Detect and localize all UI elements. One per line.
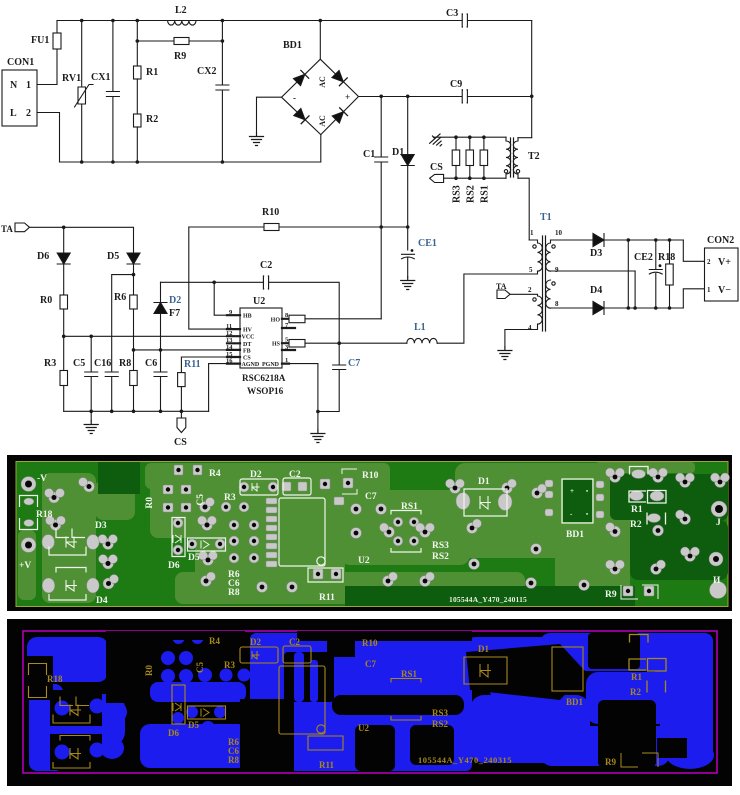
wire V- to CON2 <box>683 289 704 308</box>
svg-text:CS: CS <box>430 162 443 173</box>
svg-text:D1: D1 <box>478 477 490 487</box>
svg-text:L2: L2 <box>175 5 187 16</box>
svg-text:CS: CS <box>174 437 187 448</box>
svg-text:R18: R18 <box>47 674 63 684</box>
svg-text:И: И <box>713 576 721 586</box>
svg-text:WSOP16: WSOP16 <box>247 386 284 396</box>
svg-text:R9: R9 <box>605 590 617 600</box>
svg-text:R18: R18 <box>658 252 675 263</box>
svg-text:V+: V+ <box>718 257 731 268</box>
svg-text:C5: C5 <box>196 494 206 506</box>
svg-text:U2: U2 <box>358 723 369 733</box>
svg-text:D3: D3 <box>95 521 107 531</box>
svg-text:R11: R11 <box>319 760 335 770</box>
svg-text:RV1: RV1 <box>62 73 81 84</box>
svg-text:C2: C2 <box>260 260 272 271</box>
inductor L2 <box>168 21 196 26</box>
svg-text:-: - <box>293 93 296 103</box>
svg-text:C2: C2 <box>289 637 300 647</box>
capacitor C2 <box>264 276 269 289</box>
svg-text:D5: D5 <box>188 553 200 563</box>
svg-text:FB: FB <box>243 348 251 354</box>
capacitor C1 <box>375 96 388 318</box>
resistor on HO pin <box>289 315 305 323</box>
svg-text:HB: HB <box>243 314 252 320</box>
svg-text:+: + <box>345 92 350 102</box>
svg-text:R3: R3 <box>44 358 56 369</box>
svg-text:•: • <box>586 512 588 518</box>
svg-text:RSC6218A: RSC6218A <box>242 373 286 383</box>
svg-text:RS1: RS1 <box>401 669 418 679</box>
svg-text:C9: C9 <box>450 79 462 90</box>
svg-text:TA: TA <box>496 282 507 291</box>
svg-text:BD1: BD1 <box>283 40 302 51</box>
svg-text:R8: R8 <box>228 588 240 598</box>
connector CON1 <box>2 70 37 126</box>
wire center tap drop <box>634 271 636 308</box>
svg-text:D5: D5 <box>107 251 119 262</box>
svg-text:RS2: RS2 <box>432 552 449 562</box>
svg-text:9: 9 <box>555 266 559 274</box>
svg-text:RS1: RS1 <box>480 185 491 203</box>
wire AGND line <box>209 364 240 412</box>
svg-text:D2: D2 <box>250 470 262 480</box>
svg-text:AC: AC <box>318 76 327 88</box>
diode D4 <box>593 302 604 315</box>
inductor L1 <box>407 338 437 343</box>
svg-text:R6: R6 <box>114 292 126 303</box>
svg-text:R2: R2 <box>630 520 642 530</box>
ground tilted at RS <box>427 131 446 150</box>
svg-text:D1: D1 <box>392 147 404 158</box>
diode D2 <box>154 282 167 302</box>
svg-text:J: J <box>716 518 721 528</box>
svg-text:R1: R1 <box>631 672 642 682</box>
svg-text:C2: C2 <box>289 470 301 480</box>
capacitor C5 <box>85 336 98 411</box>
svg-text:T1: T1 <box>540 212 552 223</box>
svg-text:HV: HV <box>243 328 253 334</box>
port TA <box>15 223 30 232</box>
capacitor CX1 <box>106 21 119 163</box>
svg-text:FU1: FU1 <box>31 35 49 46</box>
resistor R10 <box>264 224 279 231</box>
wire CS/RS bottom line <box>444 177 506 179</box>
port CS bottom <box>177 418 186 433</box>
svg-text:R3: R3 <box>224 660 235 670</box>
wire V+ to CON2 <box>683 240 704 261</box>
ground at BD1 <box>250 133 264 146</box>
svg-text:CON2: CON2 <box>707 235 734 246</box>
port TA at T1 <box>497 290 510 299</box>
svg-text:RS3: RS3 <box>452 185 463 203</box>
svg-text:2: 2 <box>528 286 532 294</box>
svg-text:N: N <box>10 80 18 91</box>
svg-text:RS1: RS1 <box>401 502 418 512</box>
svg-text:R9: R9 <box>605 757 616 767</box>
svg-text:D2: D2 <box>250 637 261 647</box>
wire D3 line <box>551 239 595 241</box>
pad holes <box>25 468 723 593</box>
capacitor C7 <box>318 343 346 411</box>
varistor RV1 <box>81 21 83 163</box>
svg-text:T2: T2 <box>528 151 540 162</box>
capacitor C3 <box>462 14 467 27</box>
resistor RS2 <box>469 137 471 150</box>
svg-text:R8: R8 <box>119 358 131 369</box>
svg-text:R10: R10 <box>362 638 378 648</box>
resistor R6 <box>133 275 135 295</box>
transformer T1 <box>543 236 546 331</box>
svg-text:R4: R4 <box>209 469 221 479</box>
U2 pin numbers <box>226 309 289 365</box>
svg-text:10: 10 <box>555 229 563 237</box>
fuse FU1 <box>56 21 58 85</box>
svg-text:AGND: AGND <box>242 362 260 368</box>
svg-text:11: 11 <box>226 323 232 330</box>
connector CON2 <box>705 248 739 301</box>
resistor RS1 <box>483 137 485 150</box>
resistor R9 <box>137 40 222 42</box>
resistor R3 <box>63 336 65 370</box>
svg-text:-V: -V <box>37 474 47 484</box>
svg-text:CE1: CE1 <box>418 238 437 249</box>
IC U2 <box>240 308 282 368</box>
svg-text:D6: D6 <box>168 728 179 738</box>
svg-text:14: 14 <box>226 344 233 351</box>
svg-text:D1: D1 <box>478 644 489 654</box>
svg-text:R2: R2 <box>146 114 158 125</box>
svg-text:U2: U2 <box>358 556 370 566</box>
capacitor CE1 <box>402 254 415 277</box>
svg-text:D2: D2 <box>169 295 181 306</box>
svg-text:DT: DT <box>243 342 251 348</box>
svg-text:R0: R0 <box>40 295 52 306</box>
wire bottom AC rail <box>60 161 321 163</box>
wire HB drop to pin9 <box>214 282 240 315</box>
wire FB line <box>134 349 241 351</box>
svg-text:R10: R10 <box>362 471 379 481</box>
svg-text:+V: +V <box>19 561 31 571</box>
svg-text:BD1: BD1 <box>566 530 584 540</box>
svg-text:C16: C16 <box>94 358 111 369</box>
svg-text:HO: HO <box>271 317 281 323</box>
svg-text:RS3: RS3 <box>432 541 449 551</box>
svg-text:5: 5 <box>529 266 533 274</box>
pads <box>21 465 730 599</box>
svg-text:HS: HS <box>272 342 281 348</box>
ground at CE1 <box>401 277 415 290</box>
capacitor C16 <box>105 372 118 411</box>
svg-text:BD1: BD1 <box>566 697 584 707</box>
svg-text:R11: R11 <box>319 593 335 603</box>
svg-text:1: 1 <box>530 229 534 237</box>
pcb bottom view background <box>7 619 732 786</box>
svg-text:D3: D3 <box>590 248 602 259</box>
wire switch-node rail with R10 <box>189 226 408 228</box>
copper pours <box>42 473 96 603</box>
transformer T2 <box>511 138 514 177</box>
svg-text:•: • <box>586 489 588 495</box>
svg-text:R8: R8 <box>228 755 239 765</box>
svg-text:RS3: RS3 <box>432 708 449 718</box>
svg-text:2: 2 <box>707 258 711 266</box>
U2 pin names <box>242 314 281 368</box>
wire RS top line <box>434 136 507 138</box>
resistor R18 <box>669 240 671 264</box>
diode D5 <box>127 253 140 264</box>
diode D1 <box>407 96 409 154</box>
svg-text:PGND: PGND <box>262 362 280 368</box>
board <box>16 462 728 607</box>
wire top rail <box>57 20 532 22</box>
svg-text:13: 13 <box>226 337 233 344</box>
svg-text:R10: R10 <box>262 207 279 218</box>
diode D6 <box>57 227 70 264</box>
resistor R8 <box>130 371 138 386</box>
resistor R1 <box>136 21 138 67</box>
svg-text:1: 1 <box>285 357 288 364</box>
svg-text:4: 4 <box>528 324 532 332</box>
svg-text:8: 8 <box>555 300 559 308</box>
svg-text:R1: R1 <box>631 505 643 515</box>
svg-text:AC: AC <box>318 115 327 127</box>
diode D3 <box>593 234 604 247</box>
svg-text:D5: D5 <box>188 720 199 730</box>
svg-text:TA: TA <box>1 224 13 234</box>
wire ground rail <box>64 410 209 412</box>
ground PGND <box>311 430 325 443</box>
wire HV drop <box>189 227 240 329</box>
svg-text:12: 12 <box>226 330 233 337</box>
svg-text:CX1: CX1 <box>91 72 110 83</box>
copper <box>27 632 714 771</box>
svg-text:C7: C7 <box>365 659 376 669</box>
etched channels <box>25 631 687 771</box>
svg-text:C3: C3 <box>446 8 458 19</box>
svg-text:VCC: VCC <box>242 335 255 341</box>
svg-text:C5: C5 <box>195 662 205 673</box>
svg-text:1: 1 <box>26 80 31 91</box>
resistor RS3 <box>455 137 457 150</box>
svg-text:R18: R18 <box>36 510 53 520</box>
silkscreen (khaki) <box>29 635 667 769</box>
svg-text:+: + <box>570 487 574 495</box>
svg-text:CON1: CON1 <box>7 57 34 68</box>
wire VCC line <box>64 335 240 337</box>
svg-text:CE2: CE2 <box>634 252 653 263</box>
wire CS pin line <box>181 357 240 373</box>
svg-text:D6: D6 <box>168 561 180 571</box>
svg-text:R11: R11 <box>184 359 201 370</box>
wire TA line <box>30 227 134 253</box>
resistor R0 <box>60 295 68 309</box>
svg-text:C6: C6 <box>145 358 157 369</box>
ground T1 pin4 <box>498 347 512 360</box>
svg-text:R4: R4 <box>209 636 220 646</box>
resistor R2 <box>136 79 138 114</box>
svg-text:C7: C7 <box>348 358 360 369</box>
svg-text:U2: U2 <box>253 296 265 307</box>
svg-text:V−: V− <box>718 285 731 296</box>
svg-text:CS: CS <box>243 356 251 362</box>
ground main <box>90 411 92 421</box>
copper islands over channels <box>55 652 319 760</box>
pcb top view background <box>7 455 732 611</box>
svg-text:D6: D6 <box>37 251 49 262</box>
capacitor CX2 <box>216 21 229 163</box>
svg-text:1: 1 <box>707 286 711 294</box>
svg-text:RS2: RS2 <box>466 185 477 203</box>
svg-text:R9: R9 <box>174 51 186 62</box>
svg-text:105544A_Y470_240315: 105544A_Y470_240315 <box>418 755 512 765</box>
wire right vertical from top rail to T2 <box>531 21 533 138</box>
silkscreen <box>20 467 667 601</box>
svg-text:105544A_Y470_240115: 105544A_Y470_240115 <box>449 595 527 604</box>
capacitor C9 <box>462 90 467 103</box>
wire HB line <box>161 282 340 343</box>
capacitor CE2 <box>649 240 662 308</box>
board outline <box>23 631 717 773</box>
wire D5 jog to C16 <box>112 275 134 372</box>
svg-text:C1: C1 <box>363 149 375 160</box>
svg-text:R3: R3 <box>224 493 236 503</box>
wire HS line <box>305 274 538 343</box>
svg-text:L1: L1 <box>414 322 426 333</box>
resistor R11 <box>178 373 186 387</box>
svg-text:D4: D4 <box>96 596 108 606</box>
port CS left <box>430 174 444 182</box>
svg-text:2: 2 <box>26 108 31 119</box>
svg-text:R0: R0 <box>145 497 155 509</box>
svg-text:F7: F7 <box>169 308 180 319</box>
svg-text:16: 16 <box>226 358 233 365</box>
svg-text:C5: C5 <box>73 358 85 369</box>
svg-text:C7: C7 <box>365 492 377 502</box>
svg-text:R2: R2 <box>630 687 641 697</box>
rotated AC labels in BD1 <box>293 76 350 127</box>
svg-text:CX2: CX2 <box>197 66 216 77</box>
svg-text:L: L <box>10 108 17 119</box>
rotated RS labels <box>452 185 491 203</box>
svg-text:R0: R0 <box>144 665 154 676</box>
svg-text:R1: R1 <box>146 67 158 78</box>
wire PGND <box>289 364 318 430</box>
svg-text:D4: D4 <box>590 285 602 296</box>
wire rectifier link <box>627 240 629 308</box>
capacitor C6 <box>154 372 167 411</box>
resistor on HS pin <box>289 340 305 348</box>
bridge BD1 <box>319 21 322 163</box>
svg-text:RS2: RS2 <box>432 719 449 729</box>
